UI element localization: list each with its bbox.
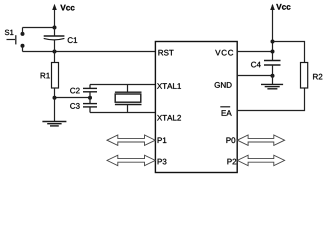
node RST junction xyxy=(53,50,57,54)
wire top rail (Vcc to switch) xyxy=(23,27,55,29)
pin label VCC xyxy=(215,50,233,56)
circuit schematic: 8051-style MCU with reset, crystal oscillator, decoupling and EA pull-up xyxy=(0,0,328,180)
wire VCC pin xyxy=(237,51,273,53)
wire XTAL2 xyxy=(90,112,156,114)
ground (left) xyxy=(42,98,66,126)
ground (right) xyxy=(261,76,283,89)
wire XTAL1 xyxy=(90,84,156,86)
power Vcc (right supply) xyxy=(270,4,275,61)
label C1 xyxy=(68,37,77,43)
capacitor C3 xyxy=(83,98,97,113)
node Vcc/R2 branch xyxy=(271,40,275,44)
wire EA pin to R2 xyxy=(237,88,305,111)
IC U1 microcontroller body xyxy=(155,42,237,173)
resistor R1 xyxy=(52,52,59,98)
label R2 xyxy=(313,74,322,80)
wire RST rail xyxy=(23,51,156,53)
node C2/C3 junction xyxy=(88,96,92,100)
node GND/C4 junction xyxy=(271,74,275,78)
crystal Y1 xyxy=(115,85,142,113)
wire Vcc branch to R2 xyxy=(273,42,305,63)
port arrow P3 (bidirectional bus) xyxy=(107,155,155,165)
pin label GND xyxy=(215,82,232,88)
label R1 xyxy=(41,73,50,79)
pin label P2 xyxy=(227,159,236,165)
node Vcc/C1 junction xyxy=(53,26,57,30)
wire R1 bottom to C2/C3 junction xyxy=(55,97,91,99)
port arrow P1 (bidirectional bus) xyxy=(107,135,155,145)
label C3 xyxy=(70,103,79,109)
power Vcc (left supply) xyxy=(52,4,57,28)
capacitor C1 xyxy=(44,28,65,52)
pin label XTAL1 xyxy=(157,83,181,89)
port arrow P0 (bidirectional bus) xyxy=(237,135,284,145)
pin label RST xyxy=(158,50,173,56)
capacitor C2 xyxy=(83,85,97,98)
label Vcc (left) xyxy=(60,5,74,11)
pin label P3 xyxy=(158,159,167,165)
label Vcc (right) xyxy=(276,4,290,10)
label C2 xyxy=(70,88,79,94)
pin label XTAL2 xyxy=(157,115,181,121)
label C4 xyxy=(251,62,261,68)
pin label EA xyxy=(222,110,232,116)
label S1 xyxy=(5,30,14,35)
pin label P1 xyxy=(158,138,167,144)
capacitor C4 xyxy=(264,61,281,76)
EA overline xyxy=(220,106,230,108)
wire GND pin xyxy=(237,75,273,77)
switch S1 xyxy=(7,28,25,52)
resistor R2 xyxy=(301,63,308,89)
port arrow P2 (bidirectional bus) xyxy=(237,155,284,165)
node VCC pin junction xyxy=(271,50,275,54)
pin label P0 xyxy=(226,137,235,143)
node R1 bottom junction xyxy=(53,96,57,100)
